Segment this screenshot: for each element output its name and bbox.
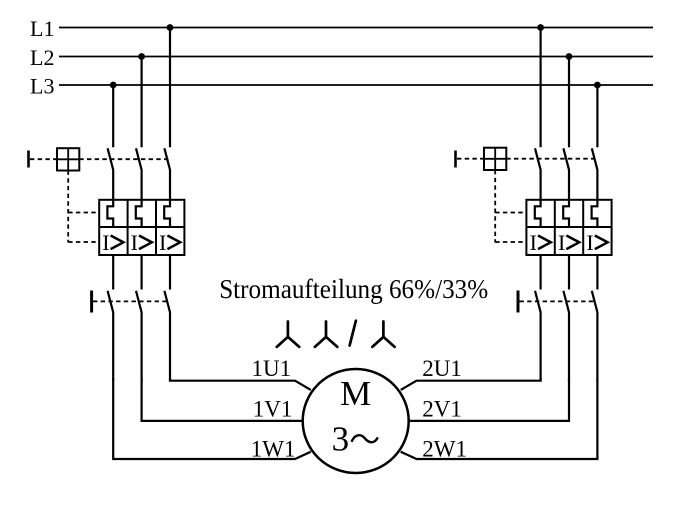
wire L2 to breaker Q2 pole2 [568,57,570,148]
breaker Q1 trip linkage dashed vertical [67,171,69,243]
breaker Q2 thermal element pole2 [563,200,569,227]
breaker Q1 magnetic trip label pole3 [159,230,180,255]
wire contactor K2 pole3 to motor 2W1 [401,378,598,459]
breaker Q1 thermal element pole3 [164,200,170,227]
breaker Q2 pole1 contact blade [535,148,541,200]
junction on L2 left [138,53,145,60]
svg-text:1W1: 1W1 [251,437,296,462]
wire Q1 pole1 to contactor K1 [112,255,114,290]
breaker Q2 magnetic trip label pole1 [530,230,551,255]
breaker Q1 pole1 contact blade [108,148,114,200]
wire Q1 pole3 to contactor K1 [169,255,171,290]
breaker Q2 trip linkage dashed to magnetic row [495,241,526,243]
breaker Q1 operator linkage dashed [30,158,57,160]
svg-text:I: I [586,230,593,255]
breaker Q2 trip linkage dashed to thermal row [495,212,526,214]
contactor K2 pole2 contact blade [563,291,569,381]
breaker Q2 pole2 contact blade [563,148,569,200]
wire contactor K1 pole3 to motor 1U1 [170,378,311,390]
breaker Q1 trip linkage dashed to magnetic row [68,241,99,243]
svg-text:2W1: 2W1 [422,437,467,462]
svg-text:M: M [340,374,371,413]
breaker Q2 operator linkage dashed [457,158,484,160]
bus L3 [59,84,653,86]
breaker Q1 linkage to poles dashed [79,158,169,160]
contactor K2 pole1 contact blade [535,291,541,381]
wire Q1 pole2 to contactor K1 [141,255,143,290]
svg-text:2V1: 2V1 [422,397,462,422]
breaker Q2 operator square [484,148,506,170]
wire contactor K2 pole2 to motor 2V1 [409,378,569,421]
motor M circle [303,369,409,473]
breaker Q2 thermal element pole3 [592,200,598,227]
breaker Q1 pole3 contact blade [164,148,170,200]
svg-text:1V1: 1V1 [253,397,293,422]
wire L3 to breaker Q2 pole3 [596,85,598,147]
slash between winding symbols [350,321,356,346]
svg-text:I: I [102,230,109,255]
breaker Q1 thermal element pole1 [107,200,113,227]
contactor K1 pole1 contact blade [108,291,114,381]
star symbol 2 [315,322,337,347]
breaker Q2 linkage to poles dashed [506,158,596,160]
wire Q2 pole3 to contactor K2 [596,255,598,290]
svg-text:L1: L1 [30,16,54,41]
bus L2 [59,56,653,58]
wire contactor K1 pole2 to motor 1V1 [142,378,303,421]
wire L1 to breaker Q1 pole3 [169,28,171,148]
svg-text:1U1: 1U1 [252,356,292,381]
star symbol 3 [372,322,394,347]
bus L1 [59,27,653,29]
wire contactor K1 pole1 to motor 1W1 [113,378,311,459]
svg-text:L3: L3 [30,74,54,99]
breaker Q1 operator tick [27,151,30,168]
breaker Q2 operator tick [454,151,457,168]
wire contactor K2 pole1 to motor 2U1 [401,378,541,390]
junction on L1 left [167,24,174,31]
breaker Q1 thermal element pole2 [136,200,142,227]
svg-text:L2: L2 [30,45,54,70]
svg-text:I: I [530,230,537,255]
wire L2 to breaker Q1 pole2 [141,57,143,148]
contactor K1 pole3 contact blade [164,291,170,381]
wire Q2 pole2 to contactor K2 [568,255,570,290]
svg-text:I: I [159,230,166,255]
contactor K1 linkage dashed [93,300,169,302]
junction on L2 right [566,53,573,60]
svg-text:Stromaufteilung 66%/33%: Stromaufteilung 66%/33% [219,274,488,304]
svg-text:3: 3 [332,419,350,458]
junction on L1 right [537,24,544,31]
star symbol 1 [277,322,299,347]
breaker Q1 trip linkage dashed to thermal row [68,212,99,214]
svg-text:I: I [131,230,138,255]
contactor K2 pole3 contact blade [592,291,598,381]
svg-text:I: I [558,230,565,255]
junction on L3 right [594,82,601,89]
contactor K1 pole2 contact blade [136,291,142,381]
wire L3 to breaker Q1 pole1 [112,85,114,147]
contactor K2 actuator bar [517,291,520,313]
breaker Q2 thermal element pole1 [535,200,541,227]
breaker Q1 magnetic trip label pole1 [102,230,123,255]
breaker Q1 body box [99,200,184,255]
motor tilde [352,435,378,442]
breaker Q1 pole2 contact blade [136,148,142,200]
breaker Q2 body box [526,200,611,255]
breaker Q2 magnetic trip label pole3 [586,230,607,255]
breaker Q2 magnetic trip label pole2 [558,230,579,255]
breaker Q1 magnetic trip label pole2 [131,230,152,255]
contactor K2 linkage dashed [520,300,596,302]
breaker Q2 pole3 contact blade [592,148,598,200]
junction on L3 left [110,82,117,89]
wire L1 to breaker Q2 pole1 [539,28,541,148]
wire Q2 pole1 to contactor K2 [539,255,541,290]
svg-text:2U1: 2U1 [422,356,462,381]
breaker Q1 operator square [57,148,79,170]
breaker Q2 trip linkage dashed vertical [494,170,496,243]
contactor K1 actuator bar [90,291,93,313]
